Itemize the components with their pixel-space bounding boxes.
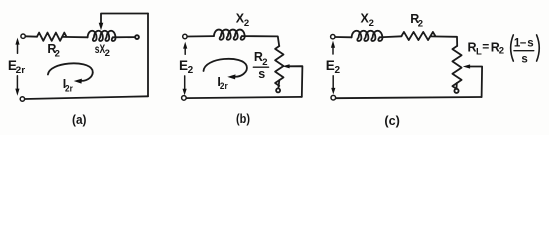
svg-text:2r: 2r (65, 83, 73, 94)
svg-text:2: 2 (418, 19, 423, 30)
voltage arrow down E2 (b) (184, 76, 186, 89)
wire top (b) (187, 35, 214, 37)
terminal top-left (b) (183, 34, 187, 38)
big right paren (537, 35, 540, 61)
svg-text:2: 2 (244, 18, 249, 29)
terminal below R2/s (b) (276, 88, 280, 92)
wire top (c) (335, 36, 352, 38)
voltage arrow down E2r (a) (16, 76, 18, 89)
terminal bottom-left (a) (20, 97, 24, 101)
svg-text:2: 2 (499, 45, 504, 56)
svg-text:2r: 2r (220, 81, 228, 92)
wire (c) X2 to R2 (380, 36, 402, 37)
wiper arrow wire (b) (288, 66, 302, 97)
wire (a) sX2 to open terminal (113, 36, 135, 38)
current loop arrow I2r (b) (204, 59, 247, 77)
svg-text:(b): (b) (236, 112, 250, 126)
svg-text:2: 2 (105, 48, 110, 59)
current loop arrow I2r (a) (48, 63, 93, 81)
svg-text:2: 2 (55, 48, 60, 59)
inductor X2 (c) (352, 31, 383, 41)
load resistor RL (c) (452, 46, 461, 89)
wire (c) R2 to corner (431, 36, 458, 46)
svg-text:(c): (c) (384, 114, 400, 128)
svg-text:2: 2 (188, 65, 194, 76)
terminal top-left (a) (21, 34, 25, 38)
svg-text:s: s (527, 38, 533, 50)
wiper arrowhead (c) (463, 64, 470, 68)
svg-text:–: – (520, 37, 527, 49)
big left paren (511, 35, 514, 61)
voltage arrow up E2 (b) (184, 48, 186, 55)
wire bottom (c) (336, 97, 482, 98)
wire right side (a) (147, 14, 149, 97)
variable-tap arrow wire over sX2 (a) (101, 14, 148, 24)
wire bottom (b) (186, 97, 302, 98)
resistor R2 (c) (402, 32, 436, 40)
terminal bottom-left (b) (182, 96, 187, 101)
svg-text:(a): (a) (72, 113, 87, 127)
svg-text:2: 2 (335, 65, 341, 76)
terminal top-left (c) (331, 35, 335, 39)
svg-text:2r: 2r (16, 65, 26, 76)
voltage arrow up E2r (a) (17, 44, 19, 54)
resistor R2 (a) (37, 33, 66, 41)
terminal node after sX2 (a) (135, 35, 139, 39)
svg-text:s: s (258, 67, 265, 81)
arrowhead onto sX2 (a) (99, 23, 104, 30)
wire (b) X2 to corner (242, 36, 279, 46)
wiper arrowhead (b) (282, 64, 289, 68)
terminal bottom-left (c) (331, 95, 336, 100)
inductor sX2 (a) (88, 31, 116, 41)
terminal below RL (c) (454, 89, 458, 93)
svg-text:=: = (482, 39, 489, 53)
voltage arrow up E2 (c) (332, 47, 334, 54)
svg-text:E: E (326, 58, 335, 73)
inductor X2 (b) (214, 30, 245, 40)
wire top (a) (25, 35, 37, 37)
svg-text:s: s (521, 53, 527, 65)
wire (a) R2 to sX2 (62, 36, 87, 38)
wire bottom (a) (25, 96, 148, 99)
voltage arrow down E2 (c) (332, 76, 334, 89)
resistor R2/s (b) (275, 46, 283, 86)
svg-text:2: 2 (369, 18, 374, 29)
svg-text:L: L (476, 46, 482, 57)
wire (c) resistor to terminal (456, 83, 458, 88)
wiper arrow wire (c) (469, 67, 482, 98)
wire (b) resistor to terminal (277, 80, 280, 88)
